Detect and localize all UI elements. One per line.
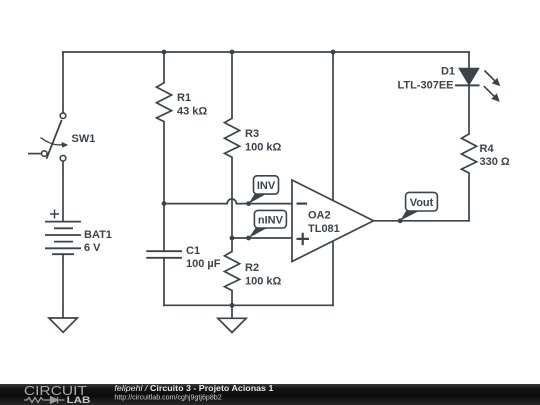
logo waveform diode (47, 397, 65, 403)
wire R3 top lead (231, 52, 233, 118)
resistor R3 (225, 118, 240, 157)
svg-text:nINV: nINV (258, 214, 284, 226)
svg-text:R1: R1 (177, 92, 191, 104)
svg-text:Circuito 3 - Projeto Acionas 1: Circuito 3 - Projeto Acionas 1 (150, 384, 274, 393)
svg-text:330 Ω: 330 Ω (480, 156, 510, 168)
node junction top rail / R1 (162, 50, 167, 55)
LED D1 (455, 68, 500, 102)
wire nINV (232, 237, 292, 239)
logo waveform resistor zigzag (24, 398, 47, 403)
wire LED anode to top rail (468, 52, 470, 68)
resistor R2 (225, 252, 240, 291)
wire right branch output to R4 (468, 173, 470, 221)
wire R2 to bottom rail (231, 291, 233, 306)
wire R4 to LED cathode (468, 85, 470, 134)
svg-text:100 µF: 100 µF (186, 258, 221, 270)
wire left branch top rail to SW1 (62, 52, 64, 113)
wire BAT1 to ground (62, 254, 64, 318)
svg-text:OA2: OA2 (308, 210, 331, 222)
node nINV flag anchor (246, 236, 251, 241)
svg-text:http://circuitlab.com/cghj9gtj: http://circuitlab.com/cghj9gtj6p8b2 (114, 393, 221, 402)
switch SW1 (28, 113, 68, 161)
svg-text:100 kΩ: 100 kΩ (245, 276, 282, 288)
svg-text:TL081: TL081 (308, 223, 340, 235)
wire op-amp V- to bottom rail (332, 241, 334, 305)
svg-text:LTL-307EE: LTL-307EE (397, 80, 453, 92)
ground (signal) (218, 318, 246, 332)
svg-text:SW1: SW1 (72, 133, 96, 145)
svg-text:Vout: Vout (410, 197, 434, 209)
net flag INV (249, 176, 279, 204)
svg-text:R2: R2 (245, 262, 259, 274)
wire R1 top lead (163, 52, 165, 83)
svg-text:R3: R3 (245, 128, 259, 140)
svg-text:felipehl /: felipehl / (114, 384, 148, 393)
wire top rail (63, 51, 469, 53)
svg-text:R4: R4 (480, 143, 495, 155)
svg-text:D1: D1 (441, 66, 455, 78)
resistor R4 (462, 134, 477, 173)
wire R3 to R2 through nINV node (231, 157, 233, 251)
battery BAT1 (45, 210, 81, 255)
svg-text:INV: INV (257, 180, 276, 192)
svg-text:BAT1: BAT1 (84, 229, 112, 241)
capacitor C1 (146, 251, 182, 258)
svg-text:LAB: LAB (67, 395, 91, 405)
node INV tap (162, 201, 167, 206)
node Vout flag anchor (398, 218, 403, 223)
ground (battery) (49, 318, 77, 332)
svg-text:43 kΩ: 43 kΩ (177, 106, 207, 118)
footer bar (0, 384, 540, 405)
node junction top rail / R3 (230, 50, 235, 55)
node INV flag anchor (246, 201, 251, 206)
wire op-amp output to right branch (374, 220, 470, 222)
wire INV with hop over R3 branch (164, 199, 292, 204)
wire R1 to C1 (163, 122, 165, 252)
wire R2 node to ground (231, 305, 233, 318)
node bottom rail junction (230, 303, 235, 308)
svg-text:C1: C1 (186, 245, 200, 257)
op-amp OA2 (292, 180, 374, 262)
svg-text:100 kΩ: 100 kΩ (245, 142, 282, 154)
wire bottom rail (164, 304, 333, 306)
svg-text:6 V: 6 V (84, 242, 101, 254)
net flag nINV (249, 210, 287, 238)
node junction top rail / op-amp V+ (331, 50, 336, 55)
net flag Vout (400, 192, 437, 220)
node nINV tap (230, 236, 235, 241)
wire SW1 to BAT1 (62, 161, 64, 222)
wire C1 to bottom rail (163, 258, 165, 305)
resistor R1 (157, 83, 172, 122)
wire op-amp V+ to top rail (332, 52, 334, 200)
